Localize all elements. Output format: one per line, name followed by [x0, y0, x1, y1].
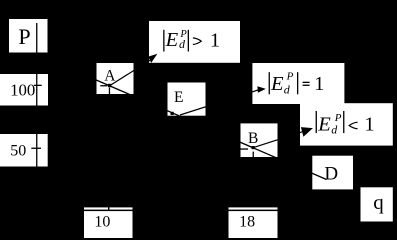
formula 1 right bar: [188, 30, 189, 52]
svg-text:P: P: [18, 24, 30, 49]
svg-text:100: 100: [10, 80, 35, 99]
svg-text:E: E: [270, 73, 284, 95]
point marker B: [252, 146, 255, 149]
arrow shaft A to formula 1: [110, 59, 152, 86]
formula 3 right bar: [343, 111, 344, 133]
dashed line A to y-axis: [100, 85, 107, 86]
svg-text:E: E: [174, 89, 183, 106]
y-axis P: [36, 23, 37, 211]
x-axis q: [36, 210, 356, 212]
svg-text:50: 50: [10, 142, 26, 159]
arrow shaft E to formula 2: [180, 90, 258, 115]
svg-text:E: E: [317, 113, 331, 135]
y tick dash at 50: [31, 148, 41, 149]
point marker A: [108, 84, 111, 87]
svg-text:P: P: [286, 71, 294, 83]
label box P (axis label): [9, 19, 48, 53]
svg-text:P: P: [334, 112, 342, 124]
label box 50 (y tick label): [0, 134, 48, 167]
svg-text:d: d: [331, 123, 338, 137]
label box q (axis label): [361, 187, 393, 221]
formula 3 prec operator: [349, 122, 357, 129]
svg-text:P: P: [179, 29, 187, 40]
label box 100 (y tick label): [0, 74, 48, 106]
formula 2 right bar: [297, 72, 298, 94]
svg-text:A: A: [104, 67, 116, 84]
dashed line A to x-axis: [109, 88, 110, 94]
svg-text:D: D: [324, 164, 338, 185]
arrowhead near formula 1: [148, 54, 157, 63]
label box 18 (x tick label): [229, 207, 278, 238]
arrowhead near formula 2: [257, 86, 265, 92]
y tick dash at 100: [34, 85, 42, 86]
formula 1 left bar: [163, 30, 164, 52]
point marker E: [171, 112, 174, 115]
formula 3 left bar: [316, 111, 317, 133]
formula 2 equals sign: [303, 82, 310, 83]
dashed line B to x-axis: [253, 152, 254, 158]
dashed line B to y-axis: [241, 148, 249, 149]
label box 10 (x tick label): [84, 207, 133, 238]
svg-text:d: d: [284, 82, 291, 96]
svg-text:1: 1: [364, 113, 374, 135]
svg-text:B: B: [248, 130, 258, 147]
arrow shaft B to formula 3: [253, 132, 303, 148]
label box A (point A): [97, 63, 134, 94]
label box D (demand curve label): [312, 156, 353, 190]
svg-text:1: 1: [314, 73, 324, 95]
label box E (point E): [168, 83, 206, 116]
label box B (point B): [241, 123, 278, 157]
demand line D: [80, 73, 327, 180]
label box formula |Ed P| = 1: [252, 63, 344, 104]
svg-text:10: 10: [94, 214, 110, 231]
svg-text:1: 1: [210, 29, 220, 51]
label box formula |Ed P| < 1: [300, 103, 393, 145]
svg-text:q: q: [373, 190, 384, 214]
svg-text:18: 18: [239, 214, 255, 231]
svg-text:E: E: [165, 29, 179, 51]
x tick at 10: [108, 207, 109, 211]
formula 2 left bar: [269, 72, 270, 94]
formula 1 succ operator: [193, 38, 201, 45]
label box formula |Ed P| > 1: [149, 21, 240, 63]
arrowhead near formula 3: [301, 127, 313, 137]
